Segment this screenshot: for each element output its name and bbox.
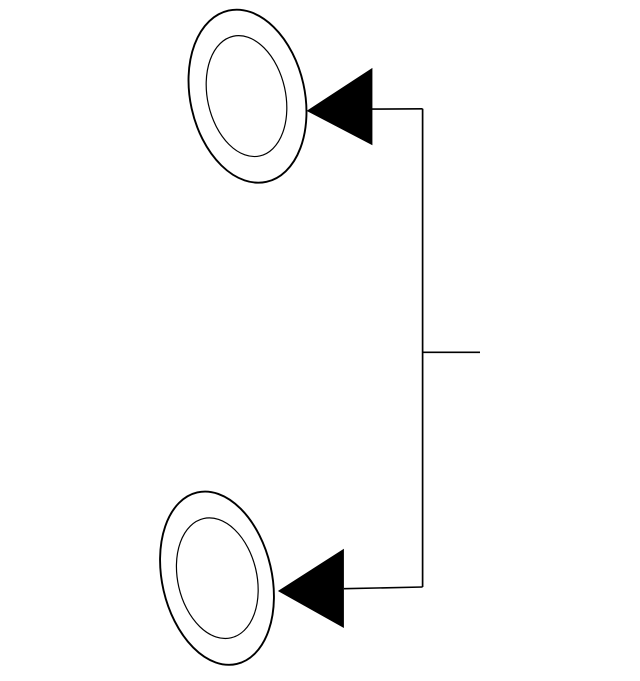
wire: middle tick	[423, 351, 480, 353]
wire: vertical leader	[422, 109, 424, 587]
grommet ring top: outer ellipse	[173, 0, 323, 194]
callout arrow bottom	[278, 549, 344, 628]
callout arrow top	[307, 68, 373, 145]
grommet ring top: inner ellipse	[195, 28, 298, 165]
grommet ring bottom: inner ellipse	[165, 510, 270, 647]
grommet ring bottom: outer ellipse	[144, 480, 290, 676]
wire: bottom horizontal leader	[344, 587, 423, 589]
wire: top horizontal leader	[372, 108, 423, 110]
